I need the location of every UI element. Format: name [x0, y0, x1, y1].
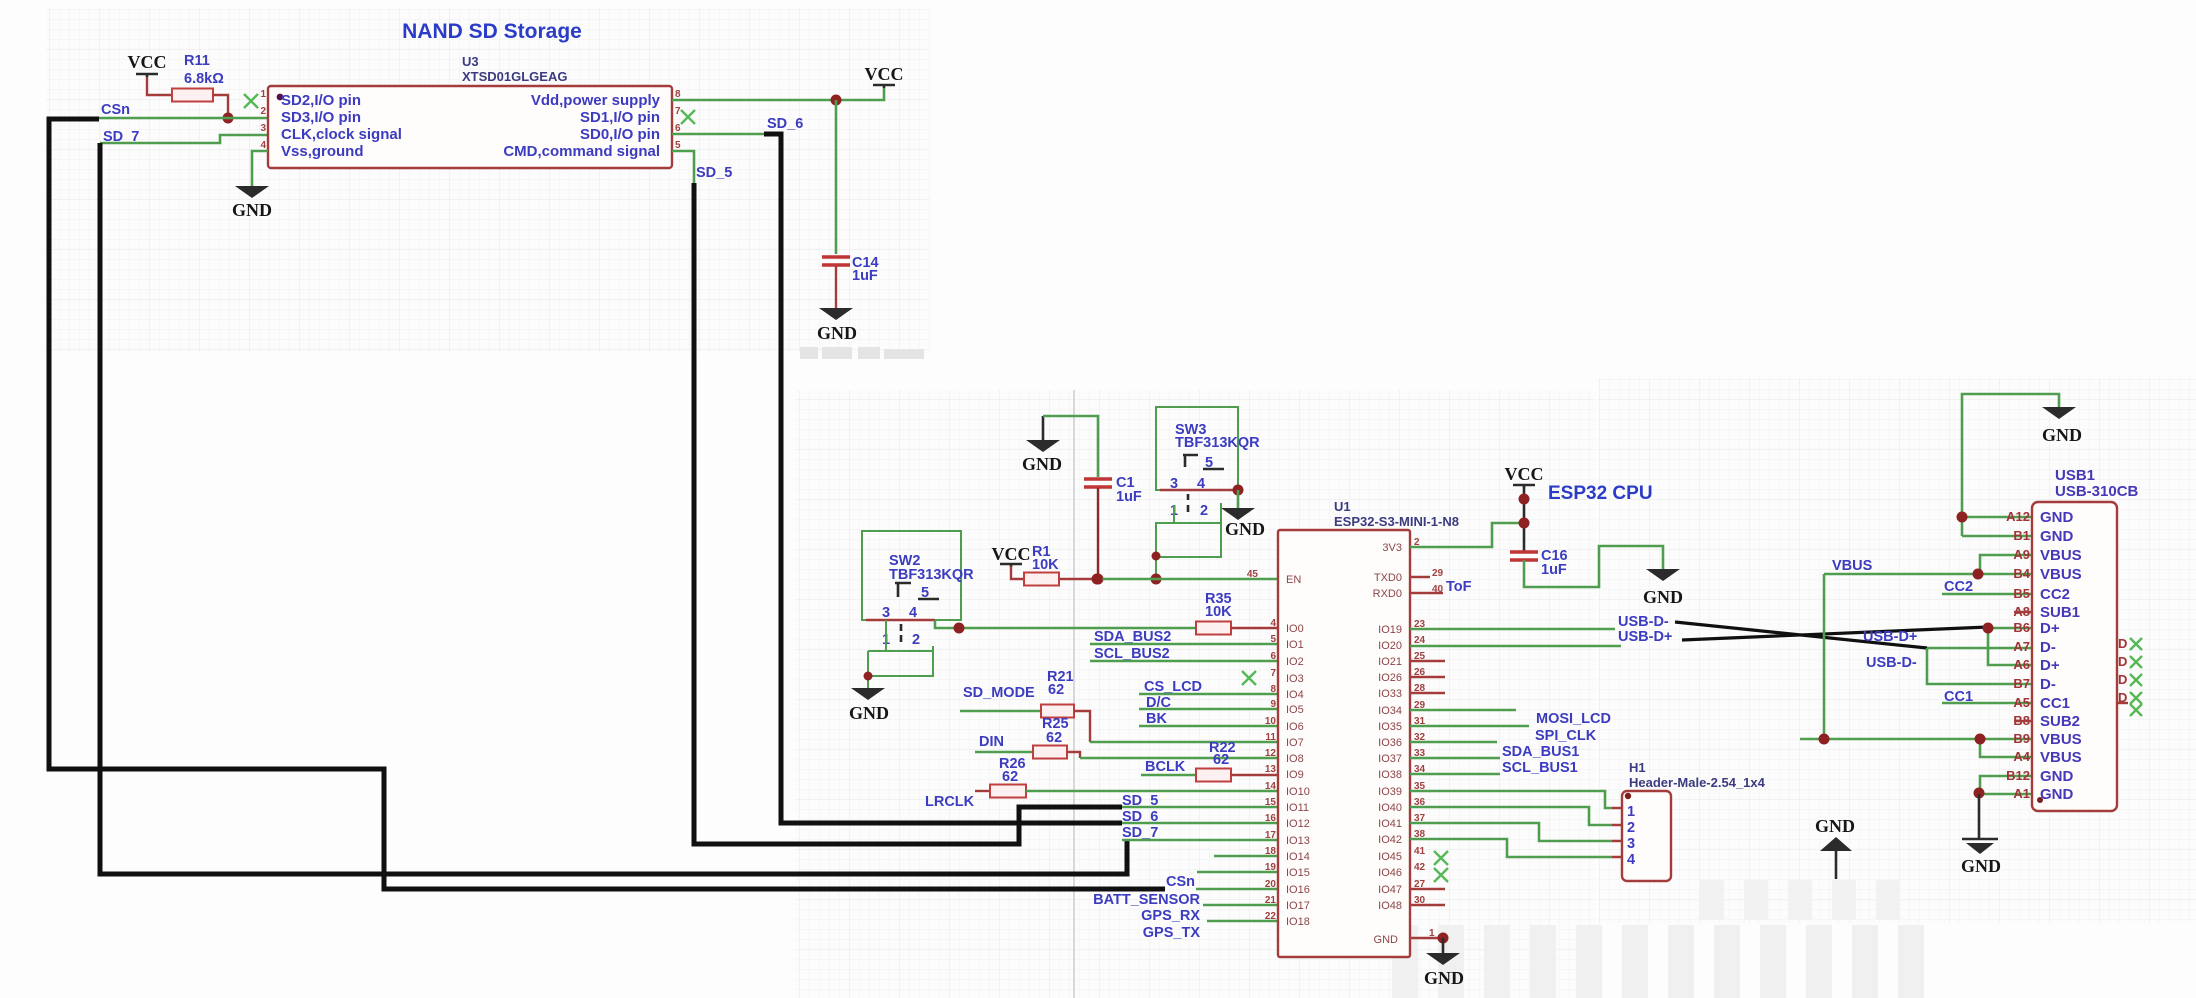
svg-text:VCC: VCC — [128, 52, 167, 72]
svg-text:IO41: IO41 — [1378, 818, 1402, 830]
svg-text:ToF: ToF — [1446, 579, 1472, 595]
svg-text:U1: U1 — [1334, 499, 1351, 514]
svg-text:IO7: IO7 — [1286, 737, 1304, 749]
svg-text:USB-D+: USB-D+ — [1863, 629, 1917, 645]
ground GND (U3 Vss) — [235, 186, 269, 198]
wire SD_7 (black) — [100, 143, 1127, 874]
svg-text:7: 7 — [1270, 668, 1276, 679]
svg-text:IO0: IO0 — [1286, 623, 1304, 635]
ground GND (top right) — [2042, 407, 2076, 419]
net label ToF — [1410, 577, 1443, 593]
wire SD_6 row — [1122, 822, 1278, 825]
wire VBUS — [1800, 555, 2032, 757]
svg-text:IO4: IO4 — [1286, 689, 1304, 701]
wire IO40 to H1 pin2 — [1410, 807, 1612, 825]
wire U3 Vss to GND — [252, 151, 268, 186]
svg-text:42: 42 — [1414, 862, 1426, 873]
svg-text:4: 4 — [909, 605, 917, 621]
svg-text:IO12: IO12 — [1286, 818, 1310, 830]
wire IO39 to H1 pin1 — [1410, 791, 1612, 808]
svg-text:ESP32-S3-MINI-1-N8: ESP32-S3-MINI-1-N8 — [1334, 514, 1459, 529]
wire EN net — [1097, 578, 1278, 581]
wire SW2 to IO0 net — [935, 620, 1196, 628]
svg-text:USB-D-: USB-D- — [1866, 655, 1917, 671]
svg-text:A9: A9 — [2013, 547, 2030, 562]
wire BK — [1139, 725, 1278, 728]
svg-text:SCL_BUS1: SCL_BUS1 — [1502, 760, 1578, 776]
svg-text:15: 15 — [1265, 797, 1277, 808]
svg-text:10: 10 — [1265, 716, 1277, 727]
svg-text:SD_7: SD_7 — [1122, 825, 1158, 841]
svg-text:VBUS: VBUS — [2040, 547, 2082, 564]
svg-text:13: 13 — [1265, 764, 1277, 775]
svg-text:B9: B9 — [2013, 731, 2030, 746]
svg-text:B1: B1 — [2013, 528, 2030, 543]
wire IO36 — [1410, 741, 1497, 744]
svg-text:62: 62 — [1213, 752, 1229, 768]
wire CC1 — [1942, 702, 2032, 705]
svg-text:IO1: IO1 — [1286, 639, 1304, 651]
wire CS_LCD — [1139, 693, 1278, 696]
svg-text:A5: A5 — [2013, 695, 2030, 710]
U1 unconnected right stubs — [1410, 661, 1445, 905]
svg-text:U3: U3 — [462, 54, 479, 69]
svg-text:IO35: IO35 — [1378, 721, 1402, 733]
power flag VCC (C16) — [1513, 485, 1535, 488]
svg-text:62: 62 — [1046, 730, 1062, 746]
svg-text:VBUS: VBUS — [1832, 558, 1873, 574]
svg-text:IO2: IO2 — [1286, 656, 1304, 668]
wire SD_7 (green) — [100, 135, 268, 143]
svg-text:8: 8 — [675, 89, 681, 100]
svg-text:IO10: IO10 — [1286, 786, 1310, 798]
svg-text:IO20: IO20 — [1378, 640, 1402, 652]
svg-text:3: 3 — [1627, 836, 1635, 852]
svg-text:SD_MODE: SD_MODE — [963, 685, 1035, 701]
junction CSn/R11 — [223, 113, 234, 124]
capacitor C14 — [822, 255, 850, 259]
junction R1/C1 — [1092, 574, 1103, 585]
svg-text:GND: GND — [2040, 509, 2074, 526]
svg-text:ESP32 CPU: ESP32 CPU — [1548, 483, 1653, 504]
junction VBUS1 — [1973, 569, 1984, 580]
svg-text:8: 8 — [1270, 684, 1276, 695]
svg-text:B7: B7 — [2013, 676, 2030, 691]
svg-text:18: 18 — [1265, 846, 1277, 857]
wire CC2 — [1942, 593, 2032, 596]
svg-text:D: D — [2118, 636, 2127, 651]
junction SW2/IO0 — [954, 623, 965, 634]
no-connect X IO46 — [1434, 868, 1448, 882]
wire SD_5 (green) — [672, 151, 694, 183]
svg-text:VBUS: VBUS — [2040, 749, 2082, 766]
junction VBUS2 — [1819, 734, 1830, 745]
svg-text:H1: H1 — [1629, 760, 1646, 775]
svg-text:45: 45 — [1247, 569, 1259, 580]
svg-text:2: 2 — [260, 106, 266, 117]
svg-text:4: 4 — [1270, 618, 1276, 629]
svg-text:USB-310CB: USB-310CB — [2055, 483, 2139, 500]
wire SD_5 row — [1122, 806, 1278, 809]
no-connect X IO45 — [1434, 851, 1448, 865]
svg-text:D-: D- — [2040, 676, 2056, 693]
svg-text:GND: GND — [1374, 934, 1399, 946]
USB1 nc stubs — [2014, 612, 2032, 721]
svg-text:10K: 10K — [1205, 604, 1232, 620]
wire IO15 stub — [1197, 871, 1278, 874]
svg-text:GND: GND — [1815, 816, 1855, 836]
junction VBUS3 — [1975, 734, 1986, 745]
wire CSn (green) — [99, 117, 268, 120]
svg-text:5: 5 — [1270, 634, 1276, 645]
power flag VCC (left) — [136, 74, 158, 77]
svg-text:D+: D+ — [2040, 620, 2060, 637]
svg-text:A12: A12 — [2006, 509, 2030, 524]
svg-text:22: 22 — [1265, 911, 1277, 922]
svg-text:GPS_RX: GPS_RX — [1141, 908, 1200, 924]
svg-text:2: 2 — [1627, 820, 1635, 836]
svg-text:5: 5 — [675, 140, 681, 151]
svg-text:2: 2 — [1200, 503, 1208, 519]
svg-text:VBUS: VBUS — [2040, 731, 2082, 748]
svg-text:1: 1 — [260, 89, 266, 100]
ground GND (SW2) — [851, 688, 885, 700]
svg-text:SDA_BUS2: SDA_BUS2 — [1094, 629, 1171, 645]
svg-text:IO33: IO33 — [1378, 688, 1402, 700]
junction SW2 loop — [864, 672, 873, 681]
svg-text:B12: B12 — [2006, 768, 2030, 783]
svg-text:VBUS: VBUS — [2040, 566, 2082, 583]
svg-text:SPI_CLK: SPI_CLK — [1535, 728, 1597, 744]
svg-text:2: 2 — [912, 632, 920, 648]
svg-text:CS_LCD: CS_LCD — [1144, 679, 1202, 695]
svg-text:IO15: IO15 — [1286, 867, 1310, 879]
svg-text:VCC: VCC — [992, 544, 1031, 564]
svg-text:6: 6 — [675, 123, 681, 134]
svg-text:4: 4 — [260, 140, 266, 151]
svg-text:IO13: IO13 — [1286, 835, 1310, 847]
svg-text:VCC: VCC — [1505, 464, 1544, 484]
svg-text:SD3,I/O pin: SD3,I/O pin — [281, 109, 361, 126]
svg-text:IO5: IO5 — [1286, 704, 1304, 716]
svg-text:TBF313KQR: TBF313KQR — [889, 567, 974, 583]
svg-text:MOSI_LCD: MOSI_LCD — [1536, 711, 1611, 727]
wire VCC to R11 — [147, 77, 172, 95]
svg-text:SD2,I/O pin: SD2,I/O pin — [281, 92, 361, 109]
ground GND (U1) — [1442, 938, 1445, 953]
ground GND (C16) — [1646, 569, 1680, 581]
svg-text:IO11: IO11 — [1286, 802, 1309, 814]
wire IO20 — [1410, 645, 1621, 648]
svg-text:CMD,command signal: CMD,command signal — [503, 143, 660, 160]
svg-text:10K: 10K — [1032, 557, 1059, 573]
svg-text:IO26: IO26 — [1378, 672, 1402, 684]
svg-text:DIN: DIN — [979, 734, 1004, 750]
wire IO14 stub — [1214, 855, 1278, 858]
junction D+ — [1983, 623, 1994, 634]
svg-text:1uF: 1uF — [1541, 562, 1567, 578]
junction C1/EN — [1093, 574, 1104, 585]
svg-text:IO48: IO48 — [1378, 900, 1402, 912]
svg-text:3: 3 — [882, 605, 890, 621]
wire SW2 contact loop — [868, 620, 933, 688]
svg-text:GND: GND — [817, 323, 857, 343]
svg-text:A7: A7 — [2013, 639, 2030, 654]
wire B12/A1 GND — [1980, 776, 2032, 794]
svg-text:NAND SD Storage: NAND SD Storage — [402, 20, 582, 43]
svg-text:Header-Male-2.54_1x4: Header-Male-2.54_1x4 — [1629, 775, 1766, 790]
svg-text:B4: B4 — [2013, 566, 2030, 581]
svg-text:IO8: IO8 — [1286, 753, 1304, 765]
svg-text:7: 7 — [675, 106, 681, 117]
svg-text:6: 6 — [1270, 651, 1276, 662]
switch SW3 TBF313KQR — [1156, 407, 1238, 490]
svg-text:9: 9 — [1270, 699, 1276, 710]
capacitor C1 — [1084, 477, 1112, 481]
junction U1 GND — [1438, 933, 1449, 944]
svg-text:20: 20 — [1265, 879, 1277, 890]
svg-text:GND: GND — [2042, 425, 2082, 445]
svg-text:IO47: IO47 — [1378, 884, 1402, 896]
svg-text:IO38: IO38 — [1378, 769, 1402, 781]
svg-text:IO17: IO17 — [1286, 900, 1310, 912]
svg-text:USB-D-: USB-D- — [1618, 614, 1669, 630]
wire BATT_SENSOR row — [1203, 904, 1278, 907]
svg-text:14: 14 — [1265, 781, 1277, 792]
svg-text:A4: A4 — [2013, 749, 2030, 764]
svg-text:LRCLK: LRCLK — [925, 794, 975, 810]
svg-text:3V3: 3V3 — [1382, 542, 1402, 554]
svg-text:CSn: CSn — [101, 102, 130, 118]
svg-text:GND: GND — [1225, 519, 1265, 539]
svg-text:BK: BK — [1146, 711, 1167, 727]
svg-text:62: 62 — [1048, 682, 1064, 698]
svg-text:16: 16 — [1265, 813, 1277, 824]
svg-text:USB-D+: USB-D+ — [1618, 629, 1672, 645]
svg-text:IO46: IO46 — [1378, 867, 1402, 879]
svg-text:IO39: IO39 — [1378, 786, 1402, 798]
svg-text:A1: A1 — [2013, 786, 2030, 801]
svg-text:GND: GND — [2040, 528, 2074, 545]
svg-text:GND: GND — [1643, 587, 1683, 607]
wire IO38 — [1410, 773, 1500, 776]
svg-text:IO21: IO21 — [1378, 656, 1402, 668]
svg-text:RXD0: RXD0 — [1373, 588, 1402, 600]
svg-text:1: 1 — [1429, 928, 1435, 939]
wire D+ pins — [1988, 628, 2032, 665]
wire C16 to GND — [1524, 546, 1663, 587]
wire SW3 contact loop — [1156, 503, 1221, 580]
svg-text:CLK,clock signal: CLK,clock signal — [281, 126, 402, 143]
svg-text:EN: EN — [1286, 574, 1301, 586]
svg-text:IO40: IO40 — [1378, 802, 1402, 814]
svg-text:41: 41 — [1414, 846, 1426, 857]
svg-text:GND: GND — [849, 703, 889, 723]
wire D/C — [1139, 708, 1278, 711]
svg-text:TXD0: TXD0 — [1374, 572, 1402, 584]
svg-text:6.8kΩ: 6.8kΩ — [184, 71, 224, 87]
svg-text:B6: B6 — [2013, 620, 2030, 635]
no-connect X U3 pin 7 — [681, 110, 695, 124]
svg-text:BATT_SENSOR: BATT_SENSOR — [1093, 892, 1200, 908]
svg-text:IO6: IO6 — [1286, 721, 1304, 733]
wire SD_6 (black) — [764, 134, 1122, 823]
svg-text:SUB2: SUB2 — [2040, 713, 2080, 730]
wire IO35 — [1410, 725, 1529, 728]
svg-text:D+: D+ — [2040, 657, 2060, 674]
svg-text:SD1,I/O pin: SD1,I/O pin — [580, 109, 660, 126]
wire USB-D+ (black cross) — [1682, 627, 1988, 640]
no-connect X U3 pin 1 — [244, 94, 258, 108]
svg-text:GND: GND — [1424, 968, 1464, 988]
svg-text:SDA_BUS1: SDA_BUS1 — [1502, 744, 1579, 760]
wire IO41 to H1 pin3 — [1410, 823, 1612, 841]
no-connect X IO3 — [1242, 671, 1256, 685]
svg-text:Vdd,power supply: Vdd,power supply — [531, 92, 661, 109]
svg-text:IO18: IO18 — [1286, 916, 1310, 928]
wire IO19 — [1410, 628, 1615, 631]
svg-text:USB1: USB1 — [2055, 467, 2095, 484]
svg-text:D-: D- — [2040, 639, 2056, 656]
svg-text:IO42: IO42 — [1378, 834, 1402, 846]
svg-text:21: 21 — [1265, 895, 1277, 906]
svg-text:IO34: IO34 — [1378, 705, 1402, 717]
ground GND (SW3) — [1221, 508, 1255, 520]
wire SCL_BUS2 — [1090, 660, 1278, 663]
svg-text:B5: B5 — [2013, 586, 2030, 601]
wire SD_6 (green) — [672, 133, 764, 136]
wire IO37 — [1410, 757, 1500, 760]
svg-text:IO45: IO45 — [1378, 851, 1402, 863]
svg-text:24: 24 — [1414, 635, 1426, 646]
svg-text:GND: GND — [2040, 768, 2074, 785]
svg-text:CSn: CSn — [1166, 874, 1195, 890]
wire SW3 to GND — [1237, 490, 1240, 508]
svg-text:GND: GND — [232, 200, 272, 220]
wire U1 GND pin — [1410, 937, 1443, 939]
svg-text:Vss,ground: Vss,ground — [281, 143, 364, 160]
svg-text:4: 4 — [1627, 852, 1635, 868]
svg-text:IO37: IO37 — [1378, 753, 1402, 765]
wire IO42 to H1 pin4 — [1410, 839, 1612, 857]
wire IO34 — [1410, 709, 1516, 712]
junction A1 — [1974, 788, 1985, 799]
svg-text:29: 29 — [1432, 568, 1444, 579]
svg-text:SD0,I/O pin: SD0,I/O pin — [580, 126, 660, 143]
svg-text:11: 11 — [1265, 732, 1276, 743]
svg-text:BCLK: BCLK — [1145, 759, 1186, 775]
svg-text:CC2: CC2 — [1944, 579, 1973, 595]
power flag VCC (R1) — [1000, 564, 1022, 567]
svg-text:R11: R11 — [184, 53, 210, 69]
svg-text:19: 19 — [1265, 862, 1277, 873]
wire U3 Vdd to VCC — [672, 88, 884, 100]
switch SW2 TBF313KQR — [862, 531, 961, 620]
wire USB-D- (black cross) — [1675, 622, 1927, 648]
wire VCC to C14 — [835, 100, 838, 254]
wire CSn row — [1196, 888, 1278, 891]
junction SW3/GND — [1233, 485, 1244, 496]
svg-text:D: D — [2118, 672, 2127, 687]
svg-text:IO3: IO3 — [1286, 673, 1304, 685]
svg-text:IO36: IO36 — [1378, 737, 1402, 749]
wire VCC/3V3/C16 — [1523, 487, 1526, 552]
svg-text:SD_5: SD_5 — [696, 165, 732, 181]
svg-text:1uF: 1uF — [852, 268, 878, 284]
svg-text:IO19: IO19 — [1378, 624, 1402, 636]
svg-text:CC1: CC1 — [2040, 695, 2070, 712]
power flag VCC (right of U3) — [873, 85, 895, 88]
svg-text:GND: GND — [1961, 856, 2001, 876]
wire USB GND top — [1962, 394, 2059, 536]
wire SD_7 row — [1122, 839, 1278, 842]
svg-text:40: 40 — [1432, 584, 1444, 595]
junction SW3 loop/EN — [1151, 574, 1162, 585]
svg-text:D: D — [2118, 654, 2127, 669]
svg-text:VCC: VCC — [865, 64, 904, 84]
svg-text:SCL_BUS2: SCL_BUS2 — [1094, 646, 1170, 662]
wire GND to C1 — [1043, 416, 1098, 477]
svg-text:GPS_TX: GPS_TX — [1143, 925, 1201, 941]
svg-text:IO16: IO16 — [1286, 884, 1310, 896]
svg-text:1: 1 — [1627, 804, 1635, 820]
svg-text:1uF: 1uF — [1116, 489, 1142, 505]
ground GND (C14) — [819, 308, 853, 320]
wire CSn (black) — [49, 119, 1165, 889]
svg-text:SD_6: SD_6 — [767, 116, 803, 132]
junction VCC — [1519, 494, 1530, 505]
wire SDA_BUS2 — [1090, 643, 1278, 646]
svg-text:CC2: CC2 — [2040, 586, 2070, 603]
svg-text:GND: GND — [1022, 454, 1062, 474]
junction 3V3 — [1519, 518, 1530, 529]
svg-text:IO9: IO9 — [1286, 769, 1304, 781]
svg-text:SUB1: SUB1 — [2040, 604, 2080, 621]
svg-text:62: 62 — [1002, 769, 1018, 785]
capacitor C16 — [1510, 550, 1538, 554]
svg-text:TBF313KQR: TBF313KQR — [1175, 435, 1260, 451]
svg-text:GND: GND — [2040, 786, 2074, 803]
wire D- pins — [1927, 648, 2032, 684]
svg-text:17: 17 — [1265, 830, 1277, 841]
junction A12 — [1957, 512, 1968, 523]
svg-text:A6: A6 — [2013, 657, 2030, 672]
svg-text:3: 3 — [260, 123, 266, 134]
wire SD_5 (black) — [694, 183, 1122, 844]
wire GPS_RX row — [1207, 920, 1278, 923]
ground GND (USB bottom) — [1978, 794, 1981, 839]
junction Vdd/C14 — [831, 95, 842, 106]
svg-text:IO14: IO14 — [1286, 851, 1310, 863]
ground GND (C1) — [1042, 416, 1045, 440]
svg-text:12: 12 — [1265, 748, 1277, 759]
svg-text:XTSD01GLGEAG: XTSD01GLGEAG — [462, 69, 567, 84]
